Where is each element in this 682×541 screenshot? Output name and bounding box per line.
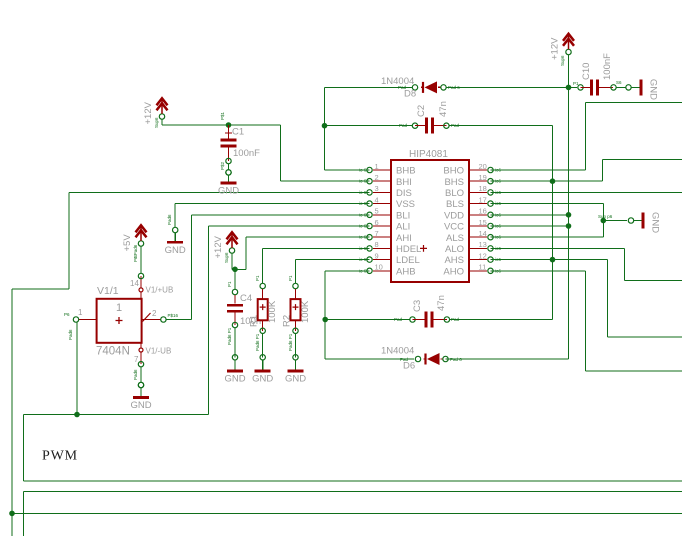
svg-text:BLO: BLO [445, 188, 464, 199]
svg-text:D8: D8 [404, 89, 416, 100]
svg-text:14: 14 [130, 279, 139, 288]
svg-text:15: 15 [479, 218, 487, 227]
svg-text:20: 20 [479, 162, 487, 171]
svg-text:V1/+UB: V1/+UB [146, 286, 174, 295]
svg-text:HIP4081: HIP4081 [409, 149, 448, 160]
svg-text:Pad 6: Pad 6 [448, 85, 460, 90]
svg-text:DIS: DIS [396, 188, 412, 199]
svg-text:6: 6 [375, 218, 379, 227]
svg-text:C2: C2 [416, 105, 427, 117]
svg-text:P$2: P$2 [220, 161, 225, 170]
svg-text:P1: P1 [573, 81, 579, 86]
svg-text:io6: io6 [495, 201, 502, 206]
svg-text:Pad6 P1: Pad6 P1 [227, 327, 232, 345]
svg-text:16: 16 [479, 207, 487, 216]
svg-text:GND: GND [285, 374, 306, 385]
svg-text:C4: C4 [240, 293, 252, 304]
svg-text:io6: io6 [495, 179, 502, 184]
svg-text:19: 19 [479, 173, 487, 182]
svg-text:GND: GND [650, 212, 661, 233]
svg-text:P$16: P$16 [168, 313, 179, 318]
svg-text:Pad6: Pad6 [133, 369, 138, 380]
svg-text:V1/-UB: V1/-UB [146, 347, 172, 356]
svg-text:+12V: +12V [213, 235, 224, 258]
svg-text:BHS: BHS [444, 177, 464, 188]
svg-text:GND: GND [224, 374, 245, 385]
svg-text:io 6: io 6 [359, 190, 367, 195]
svg-text:+12V: +12V [550, 37, 561, 60]
svg-text:V1/1: V1/1 [97, 285, 119, 297]
svg-text:GND: GND [130, 400, 151, 411]
svg-text:Pad: Pad [451, 317, 460, 322]
svg-text:11: 11 [479, 263, 487, 272]
svg-text:7404N: 7404N [96, 346, 130, 358]
svg-text:S6: S6 [616, 80, 622, 85]
svg-text:BHO: BHO [443, 166, 464, 177]
svg-text:io6: io6 [495, 224, 502, 229]
svg-text:BHI: BHI [396, 177, 412, 188]
svg-text:C1: C1 [232, 127, 244, 138]
svg-text:Sup6: Sup6 [560, 55, 565, 66]
svg-text:100nF: 100nF [602, 53, 613, 80]
svg-text:VDD: VDD [444, 210, 464, 221]
svg-text:PWM: PWM [42, 449, 78, 464]
svg-text:ALO: ALO [445, 244, 464, 255]
svg-text:1: 1 [116, 302, 122, 314]
svg-text:io 6: io 6 [359, 257, 367, 262]
svg-text:P6 Pad6: P6 Pad6 [133, 244, 138, 262]
svg-text:100K: 100K [267, 300, 278, 323]
svg-text:io 6: io 6 [359, 212, 367, 217]
svg-text:18: 18 [479, 184, 487, 193]
svg-text:Sup6: Sup6 [154, 117, 159, 128]
svg-text:10: 10 [375, 263, 383, 272]
svg-text:3: 3 [375, 184, 379, 193]
svg-text:Sup p6: Sup p6 [598, 214, 613, 219]
svg-text:io 6: io 6 [359, 235, 367, 240]
svg-text:AHS: AHS [444, 255, 464, 266]
svg-text:Pad: Pad [400, 357, 409, 362]
svg-text:R1: R1 [249, 315, 260, 327]
svg-text:C3: C3 [412, 300, 423, 312]
svg-text:io6: io6 [495, 190, 502, 195]
svg-text:io6: io6 [495, 168, 502, 173]
svg-text:VSS: VSS [396, 199, 415, 210]
svg-text:GND: GND [165, 245, 186, 256]
svg-text:Sup6: Sup6 [224, 252, 229, 263]
svg-text:+12V: +12V [143, 101, 154, 124]
svg-text:GND: GND [252, 374, 273, 385]
svg-text:io6: io6 [495, 246, 502, 251]
svg-text:ALS: ALS [446, 233, 464, 244]
svg-text:io 6: io 6 [359, 246, 367, 251]
svg-text:LDEL: LDEL [396, 255, 420, 266]
svg-text:47n: 47n [438, 101, 449, 117]
svg-text:io 6: io 6 [359, 268, 367, 273]
svg-text:BLI: BLI [396, 210, 410, 221]
svg-text:C10: C10 [581, 63, 592, 80]
svg-text:P1: P1 [288, 275, 293, 281]
svg-text:Pad6 P1: Pad6 P1 [255, 333, 260, 351]
svg-text:1: 1 [78, 308, 83, 317]
svg-text:BLS: BLS [446, 199, 464, 210]
svg-text:io 6: io 6 [359, 179, 367, 184]
svg-text:P1: P1 [227, 281, 232, 287]
svg-text:io 6: io 6 [359, 224, 367, 229]
svg-text:Pad: Pad [451, 123, 460, 128]
svg-text:P1: P1 [255, 275, 260, 281]
svg-text:D6: D6 [403, 361, 415, 372]
svg-text:io6: io6 [495, 212, 502, 217]
svg-text:2: 2 [152, 309, 157, 318]
svg-text:7: 7 [375, 229, 379, 238]
svg-text:io6: io6 [495, 257, 502, 262]
svg-text:1N4004: 1N4004 [381, 346, 414, 357]
svg-text:+5V: +5V [122, 234, 133, 252]
svg-text:5: 5 [375, 207, 379, 216]
svg-text:100nF: 100nF [233, 148, 260, 159]
svg-text:R2: R2 [282, 315, 293, 327]
svg-text:1: 1 [375, 162, 379, 171]
svg-text:S: S [133, 255, 138, 258]
svg-text:ALI: ALI [396, 222, 410, 233]
svg-text:Pad6: Pad6 [167, 214, 172, 225]
svg-text:Pad6 P1: Pad6 P1 [288, 333, 293, 351]
svg-text:HDEL: HDEL [396, 244, 421, 255]
svg-text:9: 9 [375, 251, 379, 260]
svg-text:8: 8 [375, 240, 379, 249]
svg-text:Pad: Pad [394, 317, 403, 322]
svg-text:P$1: P$1 [220, 111, 225, 120]
svg-text:AHO: AHO [443, 266, 464, 277]
svg-text:VCC: VCC [444, 222, 464, 233]
svg-text:io 6: io 6 [359, 201, 367, 206]
svg-text:io6: io6 [495, 268, 502, 273]
svg-text:17: 17 [479, 195, 487, 204]
svg-text:47n: 47n [436, 295, 447, 311]
svg-text:100K: 100K [300, 300, 311, 323]
svg-text:12: 12 [479, 251, 487, 260]
svg-text:2: 2 [375, 173, 379, 182]
svg-text:GND: GND [648, 79, 659, 100]
svg-text:Pad: Pad [398, 85, 407, 90]
svg-text:Pad6: Pad6 [68, 329, 73, 340]
svg-text:io6: io6 [495, 235, 502, 240]
svg-text:io 6: io 6 [359, 168, 367, 173]
svg-text:4: 4 [375, 195, 379, 204]
svg-text:P6: P6 [64, 312, 70, 317]
svg-text:BHB: BHB [396, 166, 416, 177]
svg-text:Pad 6: Pad 6 [450, 357, 462, 362]
svg-text:14: 14 [479, 229, 487, 238]
svg-text:GND: GND [218, 186, 239, 197]
svg-text:AHI: AHI [396, 233, 412, 244]
svg-text:13: 13 [479, 240, 487, 249]
svg-text:Pad: Pad [399, 123, 408, 128]
svg-text:AHB: AHB [396, 266, 416, 277]
